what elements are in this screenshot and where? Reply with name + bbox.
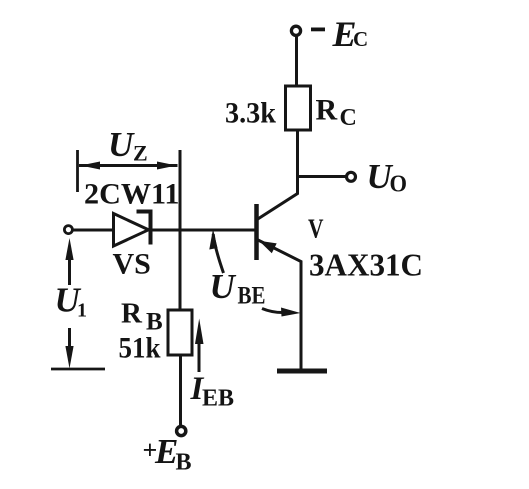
svg-text:VS: VS [113, 248, 151, 281]
terminal -EC [291, 26, 300, 35]
svg-text:U: U [210, 267, 237, 306]
node junction vertical wire [179, 150, 182, 310]
svg-text:C: C [353, 27, 368, 51]
label -EC [311, 14, 368, 54]
U1 reference bar [51, 368, 105, 371]
svg-text:B: B [176, 450, 192, 476]
label U1 [55, 281, 88, 322]
UZ measure line [79, 164, 178, 167]
svg-text:3AX31C: 3AX31C [309, 248, 423, 283]
terminal UO [347, 172, 356, 181]
label UO [367, 157, 408, 198]
IEB arrow [198, 340, 201, 372]
label RC [316, 94, 357, 132]
UZ left tick [76, 150, 79, 192]
svg-text:R: R [316, 94, 338, 127]
resistor RB [168, 310, 192, 355]
zener diode VS triangle [114, 214, 149, 247]
svg-text:1: 1 [77, 300, 87, 322]
svg-text:BE: BE [238, 283, 266, 310]
wire RB to EB terminal [179, 355, 182, 426]
transistor V base bar [254, 204, 259, 260]
UZ right arrowhead [157, 162, 177, 170]
label UBE [210, 267, 266, 310]
terminal U1 input [64, 226, 72, 234]
zener cathode bar [149, 210, 153, 245]
label +EB [143, 432, 192, 476]
label UZ [108, 125, 148, 166]
U1 arrow lower [68, 328, 71, 350]
UBE right arrow [262, 309, 285, 313]
svg-text:R: R [121, 298, 143, 330]
UBE curved arrow [213, 234, 223, 273]
resistor RC [286, 86, 311, 130]
terminal EB [177, 426, 186, 435]
U1 arrow upper [68, 252, 71, 285]
transistor emitter [257, 240, 301, 370]
wire RC to collector [257, 130, 298, 220]
wire diode to base [152, 229, 256, 232]
label RB [121, 298, 163, 336]
UZ left arrowhead [81, 162, 101, 170]
zener cathode hook [137, 210, 153, 214]
wire to UO terminal [298, 175, 346, 178]
svg-text:U: U [108, 125, 135, 164]
svg-text:Z: Z [133, 141, 148, 166]
svg-text:O: O [390, 172, 408, 198]
svg-text:3.3k: 3.3k [225, 97, 276, 130]
svg-text:V: V [308, 214, 324, 244]
svg-text:2CW11: 2CW11 [84, 178, 180, 211]
svg-text:C: C [340, 105, 357, 131]
wire EC to RC [295, 36, 298, 87]
label IEB [190, 371, 235, 412]
svg-text:EB: EB [202, 386, 234, 412]
wire input to diode [73, 229, 114, 232]
transistor emitter arrow [259, 241, 277, 254]
svg-text:51k: 51k [119, 332, 161, 365]
ground [277, 369, 327, 374]
